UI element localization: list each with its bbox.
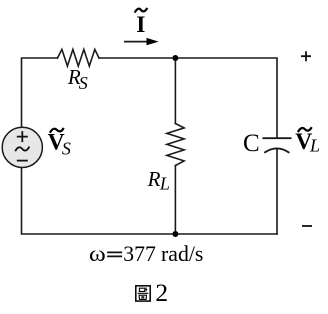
svg-text:L: L (159, 174, 170, 194)
svg-text:R: R (147, 167, 161, 191)
svg-text:L: L (309, 136, 320, 156)
svg-text:2: 2 (155, 278, 168, 307)
svg-text:I: I (136, 12, 145, 38)
svg-text:S: S (79, 73, 88, 93)
svg-text:S: S (62, 138, 71, 158)
svg-text:377: 377 (123, 241, 156, 266)
svg-text:C: C (243, 130, 260, 157)
svg-text:ω: ω (89, 241, 106, 266)
svg-text:rad/s: rad/s (161, 241, 203, 266)
